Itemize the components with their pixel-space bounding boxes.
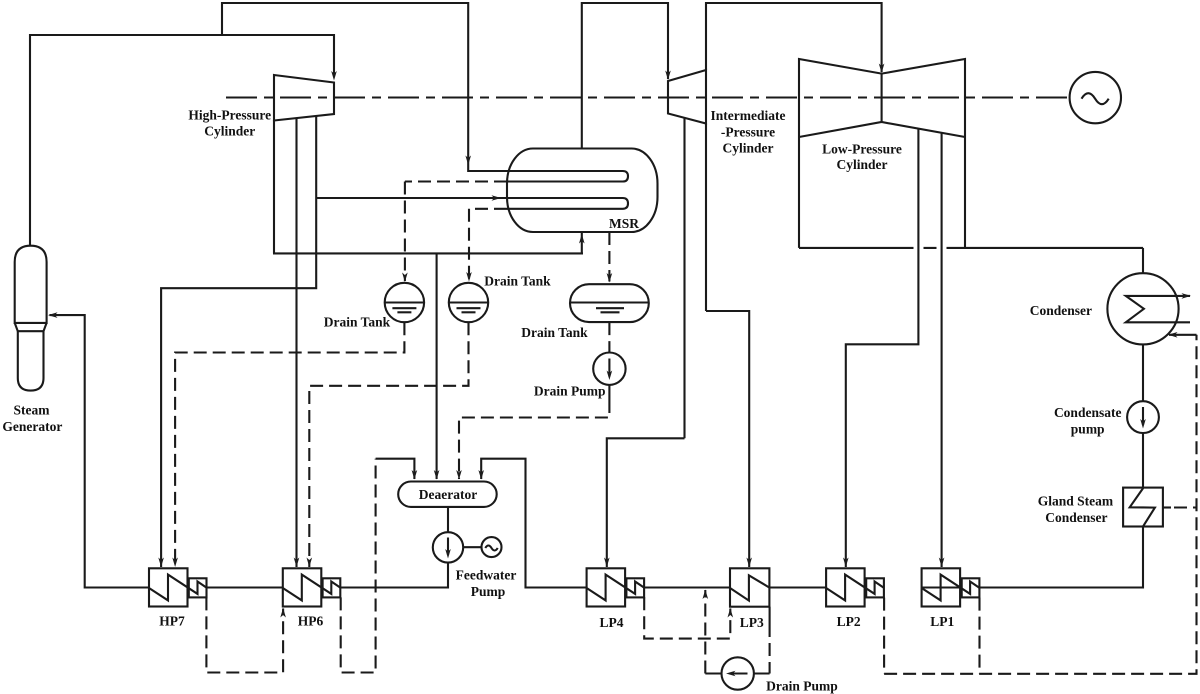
condenser: [1107, 273, 1196, 344]
arrow into HP turbine: [331, 71, 337, 81]
wire: HP6 extraction steam: [295, 253, 297, 567]
wire: condensate line LP1-LP2: [922, 586, 962, 588]
wire: condensate line LP3-LP4: [644, 586, 730, 588]
svg-text:Feedwater: Feedwater: [456, 567, 517, 582]
svg-text:-Pressure: -Pressure: [721, 124, 775, 139]
drain tank 1: [385, 283, 424, 322]
wire: feedwater pump discharge to HP heaters: [341, 563, 448, 588]
wire: condensate line LP2-LP3: [769, 586, 826, 588]
shaft centerline: [226, 96, 1070, 98]
wire: deaerator to feedwater pump: [447, 507, 449, 532]
wire: MSR tube1 drain to tank1 (dashed): [405, 180, 507, 182]
wire: condenser steam line from LP: [1142, 248, 1144, 274]
bottom drain pump: [722, 657, 754, 689]
wire: tank2 drain to HP6 (dashed): [309, 322, 468, 567]
heater HP7: [149, 568, 207, 606]
arrow on live steam line: [465, 156, 471, 166]
MSR upper hairpin (reheater tube 1): [507, 171, 628, 182]
MSR drain tank (stadium): [570, 284, 649, 322]
turbine LP cylinder: [799, 59, 1143, 248]
wire: tank to MSR drain pump (dashed): [608, 322, 610, 352]
MSR lower hairpin (reheater tube 2): [316, 198, 628, 209]
svg-text:Condenser: Condenser: [1045, 510, 1107, 525]
wire: deaerator steam feed from HP exhaust: [436, 253, 438, 479]
wire: HP7 extraction steam: [161, 253, 316, 567]
svg-text:Cylinder: Cylinder: [722, 141, 773, 156]
wire: LP3 drain to bottom drain pump (dashed): [769, 607, 771, 624]
arrow into deaerator (condensate): [478, 470, 484, 480]
svg-text:Drain Pump: Drain Pump: [766, 678, 838, 693]
svg-text:High-Pressure: High-Pressure: [188, 107, 271, 122]
condensate pump: [1127, 401, 1159, 433]
svg-text:HP7: HP7: [159, 614, 185, 629]
svg-text:Low-Pressure: Low-Pressure: [822, 141, 902, 156]
feedwater pump motor: [463, 537, 501, 557]
wire: LP4 extraction steam from IP: [607, 438, 685, 567]
feedwater pump: [433, 532, 463, 562]
svg-text:LP4: LP4: [599, 615, 623, 630]
svg-text:MSR: MSR: [609, 216, 639, 231]
arrow into steam generator: [48, 312, 58, 318]
MSR drain pump: [593, 353, 625, 385]
svg-text:Condenser: Condenser: [1030, 303, 1092, 318]
heater HP6: [283, 568, 341, 606]
svg-text:LP2: LP2: [837, 614, 861, 629]
wire: main steam SG to HP: [30, 35, 334, 246]
wire: condensate line LP4 to deaerator riser: [481, 459, 586, 588]
wire: LP3 extraction steam from IP: [706, 311, 749, 567]
heater LP2: [826, 568, 884, 606]
MSR vessel: [507, 149, 658, 233]
arrow on HP-to-MSR reheat line: [492, 195, 502, 201]
drain tank 2: [449, 283, 488, 322]
svg-text:Deaerator: Deaerator: [419, 487, 477, 502]
wire: condensate pump to GSC: [1142, 433, 1144, 488]
svg-text:Cylinder: Cylinder: [836, 157, 887, 172]
wire: MSR top outlet to IP inlet: [582, 3, 668, 149]
wire: condenser to condensate pump: [1142, 344, 1144, 401]
turbine HP cylinder: [273, 75, 583, 253]
heater LP4: [587, 568, 645, 606]
wire: feedwater line HP6 to HP7: [207, 586, 283, 588]
wire: GSC right stub: [1163, 506, 1171, 508]
turbine IP cylinder: [668, 70, 706, 438]
svg-text:LP1: LP1: [930, 614, 954, 629]
wire: feedwater line HP7 to SG: [50, 315, 150, 587]
svg-text:Drain Tank: Drain Tank: [484, 274, 551, 289]
wire: HP exhaust up into MSR bottom: [581, 233, 583, 253]
wire: MSR drain pump to deaerator (dashed): [608, 385, 610, 400]
heater LP3: [730, 568, 769, 606]
wire: LP4 drain loop to LP3 (dashed): [644, 597, 730, 638]
arrow into IP turbine: [665, 71, 671, 81]
wire: live steam branch to MSR heating: [222, 3, 507, 171]
svg-text:Pump: Pump: [471, 584, 506, 599]
gland steam condenser: [1123, 488, 1163, 527]
svg-text:pump: pump: [1071, 421, 1105, 436]
wire: bottom drain pump to condensate line (dashed): [705, 672, 721, 674]
svg-text:Intermediate: Intermediate: [711, 108, 786, 123]
deaerator: [398, 482, 497, 507]
svg-text:Drain Pump: Drain Pump: [534, 384, 606, 399]
wire: LP1 drain loop (dashed): [978, 598, 980, 674]
wire: LP2 extraction steam from LP: [846, 129, 919, 567]
svg-text:Generator: Generator: [2, 419, 62, 434]
wire: HP6 drain loop to deaerator (dashed): [341, 459, 376, 673]
svg-text:Gland Steam: Gland Steam: [1038, 493, 1114, 508]
svg-text:Condensate: Condensate: [1054, 405, 1122, 420]
svg-text:HP6: HP6: [298, 614, 324, 629]
wire: HP7 drain loop to HP6 (dashed): [206, 597, 283, 672]
svg-text:Drain Tank: Drain Tank: [324, 315, 391, 330]
svg-text:Drain Tank: Drain Tank: [521, 325, 588, 340]
svg-text:Cylinder: Cylinder: [204, 124, 255, 139]
wire: MSR tube2 drain to tank2 (dashed): [469, 208, 507, 210]
wire: LP1 extraction steam from LP: [941, 133, 943, 567]
svg-text:LP3: LP3: [740, 615, 764, 630]
wire: bottom drain header to condenser (dashed): [884, 335, 1196, 674]
wire: GSC down to condensate line: [980, 527, 1144, 588]
wire: HP6 drain up to deaerator bracket: [376, 459, 415, 479]
heater LP1: [922, 568, 980, 606]
wire: LP2 drain loop (dashed): [883, 598, 885, 674]
steam generator vessel: [15, 246, 47, 391]
wire: tank1 drain to HP7 (dashed): [175, 322, 404, 567]
svg-text:Steam: Steam: [14, 402, 51, 417]
arrow into LP turbine: [879, 64, 885, 74]
wire: IP to LP crossover: [706, 3, 882, 72]
generator G: [1070, 72, 1121, 123]
wire: MSR bottom drain to tank (dashed): [608, 232, 610, 282]
